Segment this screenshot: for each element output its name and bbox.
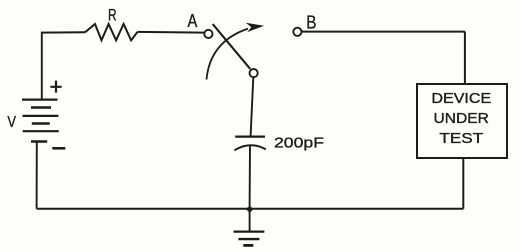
switch pole circle [250, 69, 258, 77]
junction dot [246, 205, 253, 213]
capacitor C top plate [235, 136, 265, 138]
battery V plate 2 (short) [31, 106, 51, 108]
battery V plate 4 (short) [32, 122, 50, 124]
wire right vertical down to DUT box [464, 32, 466, 84]
wire capacitor down to junction [249, 146, 251, 206]
plus sign [50, 81, 61, 93]
wire DUT box bottom to bottom rail [462, 158, 464, 209]
wire battery bottom to bottom rail [36, 142, 38, 209]
capacitor C curved plate [234, 145, 265, 150]
battery V plate 1 (long, +) [22, 98, 58, 100]
svg-text:200pF: 200pF [274, 135, 324, 151]
bottom rail wire [37, 208, 464, 210]
svg-text:DEVICE: DEVICE [431, 91, 491, 107]
svg-text:UNDER: UNDER [434, 111, 489, 127]
resistor R [85, 24, 138, 40]
svg-text:TEST: TEST [439, 131, 483, 147]
battery V plate 3 (long) [23, 115, 59, 117]
switch arm (pole to throw) [213, 24, 251, 69]
node A terminal circle [204, 30, 212, 38]
battery V plate 5 (long) [23, 130, 59, 132]
wire top-left horizontal (corner to resistor) [41, 31, 85, 33]
node B terminal circle [293, 28, 301, 36]
ground [234, 230, 265, 232]
switch arrowhead [246, 23, 265, 32]
battery V plate 6 (short, -) [31, 140, 47, 142]
wire junction to ground [249, 209, 251, 231]
DUT box [417, 84, 507, 158]
wire resistor to node A [138, 31, 205, 34]
svg-text:R: R [108, 5, 117, 24]
svg-text:V: V [7, 114, 16, 131]
wire node B to right corner [302, 31, 465, 33]
switch throw arc [207, 29, 249, 80]
wire left vertical (corner down to battery top plate) [41, 32, 43, 100]
wire switch pole down to capacitor [251, 77, 254, 136]
minus sign [52, 147, 65, 150]
svg-text:B: B [306, 12, 316, 32]
svg-text:A: A [188, 11, 198, 31]
